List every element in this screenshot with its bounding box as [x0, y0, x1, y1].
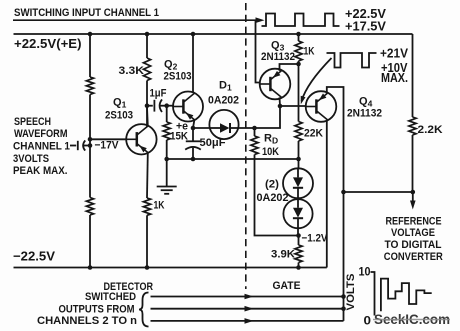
wire switching-input drop to Q3 base — [256, 20, 261, 82]
svg-text:2S103: 2S103 — [105, 110, 133, 122]
svg-text:2S103: 2S103 — [164, 71, 192, 83]
svg-text:SWITCHED: SWITCHED — [85, 291, 136, 303]
wire node to 22K — [298, 64, 300, 122]
wire curved arrow from waveform to Q4 base — [301, 58, 332, 104]
wire RD bottom L-path to diode chain — [255, 155, 299, 236]
junction Q3 emitter node — [296, 62, 301, 67]
svg-text:10: 10 — [359, 265, 371, 279]
transistor Q1 2S103 — [126, 124, 156, 154]
axis volts scale — [371, 272, 375, 316]
junction bus/x90 — [88, 265, 93, 270]
junction rail/Q2 collector — [191, 32, 196, 37]
resistor 22K — [295, 122, 302, 142]
resistor 1K (Q3 emitter) — [295, 41, 302, 61]
wire -22.5V bus — [14, 267, 327, 269]
wire x90 middle — [89, 95, 91, 198]
junction diode chain / RD return — [296, 233, 301, 238]
wire Q1 collector lead — [146, 107, 149, 126]
wire 2.2K bottom — [412, 135, 414, 192]
junction Q2 emitter node — [191, 126, 196, 131]
junction collector line 2 — [341, 306, 346, 311]
diode (2) 0A202 upper — [283, 168, 313, 199]
junction ref/2.2K — [411, 190, 416, 195]
wire ground stub — [166, 159, 168, 186]
diode (2) 0A202 lower — [283, 199, 312, 236]
resistor 15K — [163, 122, 170, 140]
wire D1 to RD node to corner — [238, 106, 280, 128]
watermark SeekIC.com — [373, 312, 450, 327]
svg-text:2N1132: 2N1132 — [347, 108, 382, 120]
wire bus to diode chain — [298, 159, 300, 169]
waveform switching input square wave — [262, 14, 340, 27]
junction base/x90 — [88, 137, 93, 142]
wire Q3 collector to Q4 base — [280, 105, 306, 107]
wire 22K bottom — [298, 141, 300, 159]
svg-text:0A202: 0A202 — [208, 95, 239, 107]
svg-text:2.2K: 2.2K — [418, 124, 443, 136]
diode D1 0A202 — [209, 110, 238, 139]
svg-text:MAX.: MAX. — [381, 70, 408, 85]
svg-text:−22.5V: −22.5V — [13, 249, 55, 264]
svg-text:1μF: 1μF — [150, 88, 167, 100]
svg-text:CONVERTER: CONVERTER — [384, 251, 443, 263]
svg-text:3.9K: 3.9K — [271, 249, 295, 261]
wire 1K top lead — [298, 34, 300, 41]
svg-text:OUTPUTS FROM: OUTPUTS FROM — [59, 304, 135, 316]
wire detector line 1 — [151, 294, 344, 300]
wire Q2 collector — [192, 34, 194, 93]
resistor 3.3K — [143, 58, 150, 81]
wire 15K bottom lead — [166, 140, 168, 159]
wire 3.9K top lead — [298, 236, 300, 246]
capacitor speech input coupling — [70, 140, 90, 150]
wire 3.3K bottom to Q1 collector — [146, 81, 148, 127]
wire reference arrow down — [410, 192, 416, 210]
svg-text:1K: 1K — [154, 200, 165, 212]
junction Q3 collector node — [278, 104, 283, 109]
capacitor C 1uF — [147, 99, 173, 112]
svg-text:+21V: +21V — [380, 46, 408, 61]
junction rail/x90 — [88, 32, 93, 37]
svg-text:GATE: GATE — [273, 280, 301, 292]
resistor 1K (Q1 emitter) — [143, 198, 150, 215]
junction rail/3.3K — [145, 32, 150, 37]
wire 50uF top lead — [192, 128, 194, 141]
svg-text:10K: 10K — [262, 146, 279, 158]
svg-text:SWITCHING INPUT CHANNEL 1: SWITCHING INPUT CHANNEL 1 — [14, 7, 159, 19]
wire detector line 3 — [151, 318, 344, 324]
junction bus/1K — [145, 265, 150, 270]
wire Q1 base — [90, 138, 126, 140]
capacitor 50uF — [185, 141, 201, 149]
wire Q4 collector down — [326, 120, 328, 268]
wire 3.3K top lead — [146, 34, 148, 58]
svg-text:0: 0 — [364, 314, 372, 328]
wire 50uF bottom lead — [192, 148, 194, 159]
resistor upper divider (unlabeled) — [86, 77, 93, 95]
svg-text:−1.2V: −1.2V — [302, 233, 329, 245]
junction bus/15K — [164, 157, 169, 162]
svg-text:1K: 1K — [304, 46, 315, 58]
transistor Q4 2N1132 — [306, 91, 337, 122]
svg-text:−17V: −17V — [95, 140, 120, 152]
junction ref/Q4 emitter — [341, 190, 346, 195]
svg-text:(2): (2) — [265, 179, 279, 191]
transistor Q2 2S103 — [173, 92, 203, 122]
waveform output staircase — [381, 279, 432, 312]
junction bus/3.9K — [296, 265, 301, 270]
wire Q2 emitter to D1 — [193, 127, 210, 129]
wire rail right corner down — [412, 34, 414, 117]
svg-text:3VOLTS: 3VOLTS — [13, 153, 49, 165]
wire RD top lead — [254, 128, 256, 136]
wire 3.9K bottom — [298, 263, 300, 268]
wire x90 upper — [89, 34, 91, 77]
svg-text:CHANNELS 2 TO n: CHANNELS 2 TO n — [37, 315, 137, 327]
resistor 3.9K — [295, 245, 302, 263]
wire 1K bottom to junction — [298, 61, 300, 64]
svg-text:REFERENCE: REFERENCE — [386, 216, 442, 228]
svg-text:CHANNEL 1: CHANNEL 1 — [13, 141, 70, 153]
svg-text:3.3K: 3.3K — [119, 65, 145, 77]
wire Q3 emitter to 1K — [280, 64, 299, 71]
wire +22.5V rail — [14, 33, 413, 35]
svg-text:VOLTS: VOLTS — [345, 274, 357, 311]
wire detector line 2 — [151, 306, 344, 312]
brace detector outputs — [139, 293, 149, 327]
wire Q3 collector down — [279, 97, 282, 106]
svg-text:22K: 22K — [304, 128, 323, 140]
resistor 2.2K — [409, 117, 416, 135]
resistor lower divider (unlabeled) — [86, 198, 93, 216]
junction cap/x90 — [88, 143, 93, 148]
junction D1/RD — [252, 126, 257, 131]
ground — [157, 187, 177, 194]
junction collector line 1 — [341, 294, 346, 299]
junction rail/1K — [296, 32, 301, 37]
junction bus/22K — [296, 157, 301, 162]
svg-text:2N1132: 2N1132 — [261, 51, 295, 63]
svg-text:+22.5V(+E): +22.5V(+E) — [14, 36, 82, 51]
junction bus/50uF — [191, 157, 196, 162]
wire Q4 emitter to reference line — [327, 87, 344, 321]
wire 15K top lead — [166, 106, 168, 122]
svg-text:VOLTAGE: VOLTAGE — [391, 227, 435, 239]
wire x90 lower — [89, 215, 91, 268]
wire 1K to -22.5 bus — [146, 215, 148, 267]
waveform gated output pulses — [327, 53, 377, 68]
wire title-underline-to-waveform with arrow — [13, 17, 265, 23]
svg-text:+e: +e — [176, 121, 188, 133]
junction 3.3K/1uF node — [145, 103, 150, 108]
resistor RD 10K — [251, 136, 258, 155]
wire Q2 emitter down — [193, 120, 194, 128]
junction 1uF/15K node — [164, 103, 169, 108]
svg-text:0A202: 0A202 — [257, 192, 289, 204]
svg-text:WAVEFORM: WAVEFORM — [14, 128, 68, 140]
wire emitter bus — [167, 158, 299, 160]
node GATE boundary dashed line — [245, 3, 247, 289]
wire reference line — [344, 191, 414, 193]
transistor Q3 2N1132 — [260, 69, 291, 100]
wire Q1 emitter lead down — [146, 153, 149, 199]
svg-text:TO DIGITAL: TO DIGITAL — [385, 239, 442, 251]
svg-text:+17.5V: +17.5V — [345, 19, 386, 34]
svg-text:SPEECH: SPEECH — [14, 116, 51, 128]
svg-text:PEAK MAX.: PEAK MAX. — [13, 165, 68, 177]
